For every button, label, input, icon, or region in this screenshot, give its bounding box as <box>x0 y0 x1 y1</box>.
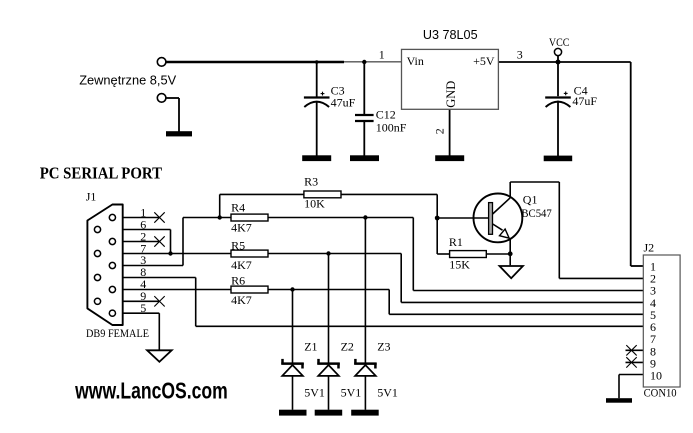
svg-text:R3: R3 <box>304 174 318 188</box>
svg-text:4K7: 4K7 <box>231 220 252 234</box>
svg-text:10: 10 <box>650 369 662 383</box>
svg-text:10K: 10K <box>304 197 325 211</box>
svg-text:4K7: 4K7 <box>231 258 252 272</box>
svg-text:J1: J1 <box>86 190 97 204</box>
svg-text:1: 1 <box>379 47 385 61</box>
svg-text:R6: R6 <box>231 273 245 287</box>
svg-text:2: 2 <box>433 128 447 134</box>
svg-text:+5V: +5V <box>473 54 495 68</box>
svg-text:Z2: Z2 <box>341 339 354 353</box>
svg-text:R5: R5 <box>231 238 245 252</box>
svg-text:100nF: 100nF <box>376 120 407 134</box>
svg-text:5V1: 5V1 <box>304 386 325 400</box>
svg-text:5V1: 5V1 <box>341 386 362 400</box>
svg-text:47uF: 47uF <box>331 95 356 109</box>
svg-text:CON10: CON10 <box>644 386 677 400</box>
svg-text:VCC: VCC <box>549 35 570 49</box>
svg-text:Z3: Z3 <box>377 339 390 353</box>
svg-text:Q1: Q1 <box>523 193 538 207</box>
svg-text:Z1: Z1 <box>304 339 317 353</box>
svg-text:Zewnętrzne 8,5V: Zewnętrzne 8,5V <box>79 73 176 88</box>
svg-text:www.LancOS.com: www.LancOS.com <box>74 378 227 404</box>
svg-text:4K7: 4K7 <box>231 293 252 307</box>
svg-text:GND: GND <box>444 81 458 108</box>
svg-text:15K: 15K <box>449 257 470 271</box>
svg-text:Vin: Vin <box>407 54 424 68</box>
svg-text:BC547: BC547 <box>521 206 551 220</box>
svg-text:R4: R4 <box>231 201 245 215</box>
svg-text:DB9 FEMALE: DB9 FEMALE <box>86 326 149 340</box>
svg-text:PC SERIAL PORT: PC SERIAL PORT <box>40 164 162 183</box>
svg-text:U3 78L05: U3 78L05 <box>423 27 478 42</box>
svg-text:R1: R1 <box>449 235 463 249</box>
svg-text:5: 5 <box>140 301 146 315</box>
svg-text:47uF: 47uF <box>572 94 597 108</box>
svg-text:3: 3 <box>517 48 523 62</box>
svg-text:5V1: 5V1 <box>377 386 398 400</box>
svg-text:J2: J2 <box>644 240 655 254</box>
